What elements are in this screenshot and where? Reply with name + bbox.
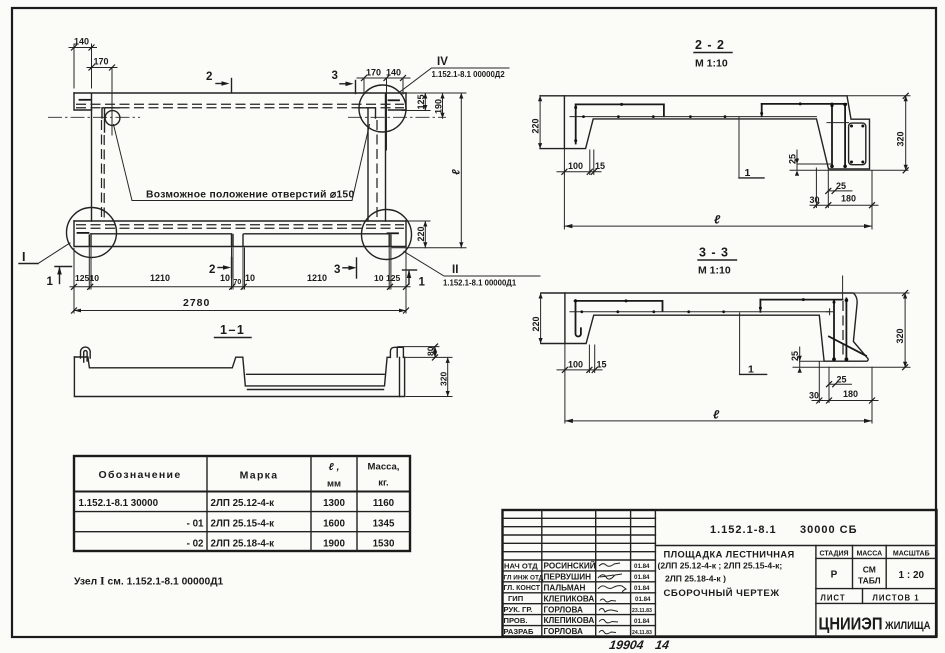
- svg-text:ГЛ ИНЖ ОТД: ГЛ ИНЖ ОТД: [504, 574, 544, 581]
- svg-text:РАЗРАБ: РАЗРАБ: [504, 627, 535, 636]
- svg-text:190: 190: [434, 99, 444, 114]
- svg-text:170: 170: [366, 68, 381, 78]
- svg-text:- 02: - 02: [187, 539, 204, 550]
- svg-text:2: 2: [206, 71, 212, 83]
- svg-text:320: 320: [896, 131, 906, 146]
- svg-text:180: 180: [841, 194, 856, 204]
- svg-text:мм: мм: [327, 479, 341, 490]
- svg-text:2 - 2: 2 - 2: [695, 38, 725, 52]
- svg-text:СМ: СМ: [863, 565, 876, 575]
- svg-text:М 1:10: М 1:10: [698, 265, 731, 277]
- svg-text:2ЛП 25.18-4-к: 2ЛП 25.18-4-к: [211, 539, 275, 550]
- svg-text:1.152.1-8.1 30000: 1.152.1-8.1 30000: [79, 498, 159, 509]
- svg-text:15: 15: [595, 161, 605, 171]
- svg-text:1.152.1-8.1 00000Д2: 1.152.1-8.1 00000Д2: [432, 70, 506, 79]
- svg-text:ℓ ,: ℓ ,: [329, 462, 340, 473]
- svg-text:НАЧ ОТД: НАЧ ОТД: [504, 561, 538, 570]
- svg-text:ℓ: ℓ: [451, 169, 463, 175]
- svg-text:1210: 1210: [307, 273, 327, 283]
- svg-text:2ЛП 25.12-4-к: 2ЛП 25.12-4-к: [211, 498, 275, 509]
- svg-text:100: 100: [568, 161, 583, 171]
- svg-text:180: 180: [843, 389, 858, 399]
- svg-text:70: 70: [234, 279, 242, 286]
- svg-text:1160: 1160: [373, 498, 395, 509]
- svg-text:1–1: 1–1: [220, 323, 245, 337]
- svg-text:ЛИСТ: ЛИСТ: [820, 593, 845, 602]
- svg-text:КЛЕПИКОВА: КЛЕПИКОВА: [544, 594, 595, 603]
- svg-text:10: 10: [220, 273, 230, 283]
- svg-text:3 - 3: 3 - 3: [699, 246, 729, 260]
- svg-text:10: 10: [374, 273, 384, 283]
- svg-text:КЛЕПИКОВА: КЛЕПИКОВА: [544, 616, 595, 625]
- svg-text:140: 140: [74, 37, 89, 47]
- svg-text:1345: 1345: [373, 519, 395, 530]
- svg-text:2: 2: [209, 264, 215, 276]
- svg-text:Узел I см. 1.152.1-8.1 00000: Узел I см. 1.152.1-8.1 00000Д1: [74, 574, 224, 588]
- svg-text:1.152.1-8.1: 1.152.1-8.1: [710, 524, 777, 536]
- svg-text:СБОРОЧНЫЙ ЧЕРТЕЖ: СБОРОЧНЫЙ ЧЕРТЕЖ: [664, 587, 780, 599]
- svg-text:1: 1: [748, 364, 754, 376]
- svg-text:220: 220: [416, 226, 426, 241]
- svg-text:125: 125: [416, 94, 426, 109]
- svg-text:30000 СБ: 30000 СБ: [800, 524, 858, 536]
- svg-text:3: 3: [334, 264, 340, 276]
- svg-text:II: II: [452, 264, 458, 276]
- svg-text:01.84: 01.84: [634, 574, 650, 581]
- svg-text:23.11.83: 23.11.83: [632, 608, 652, 614]
- svg-text:2ЛП 25.18-4-к ): 2ЛП 25.18-4-к ): [665, 574, 726, 584]
- svg-text:3: 3: [332, 70, 338, 82]
- svg-text:80: 80: [426, 346, 436, 356]
- svg-text:1210: 1210: [150, 273, 170, 283]
- svg-text:Обозначение: Обозначение: [99, 469, 182, 481]
- svg-text:2780: 2780: [183, 297, 210, 309]
- svg-text:РОСИНСКИЙ: РОСИНСКИЙ: [544, 560, 596, 571]
- svg-text:14: 14: [654, 638, 670, 652]
- svg-text:ПАЛЬМАН: ПАЛЬМАН: [544, 583, 586, 592]
- svg-text:19904: 19904: [608, 638, 644, 652]
- svg-text:170: 170: [94, 57, 109, 67]
- svg-text:ГИП: ГИП: [508, 594, 523, 603]
- svg-text:25: 25: [790, 351, 800, 361]
- svg-text:1.152.1-8.1 00000Д1: 1.152.1-8.1 00000Д1: [443, 279, 517, 288]
- svg-text:125: 125: [75, 273, 90, 283]
- svg-text:01.84: 01.84: [634, 585, 650, 592]
- svg-text:ЛИСТОВ 1: ЛИСТОВ 1: [872, 593, 919, 602]
- svg-text:ПЕРВУШИН: ПЕРВУШИН: [544, 573, 592, 582]
- svg-text:ГОРЛОВА: ГОРЛОВА: [544, 605, 583, 614]
- svg-text:М 1:10: М 1:10: [695, 58, 728, 70]
- svg-text:ЦНИИЭП: ЦНИИЭП: [819, 614, 883, 634]
- svg-text:01.84: 01.84: [634, 563, 650, 570]
- svg-text:МАСШТАБ: МАСШТАБ: [893, 551, 930, 558]
- svg-text:125: 125: [386, 273, 401, 283]
- svg-text:10: 10: [245, 273, 255, 283]
- svg-text:1530: 1530: [373, 539, 395, 550]
- svg-text:IV: IV: [437, 56, 448, 68]
- svg-text:320: 320: [439, 372, 449, 386]
- svg-text:220: 220: [531, 118, 541, 133]
- svg-text:140: 140: [386, 68, 401, 78]
- svg-text:1: 1: [745, 167, 751, 179]
- svg-text:1300: 1300: [323, 498, 345, 509]
- svg-text:25: 25: [837, 375, 847, 385]
- svg-text:I: I: [22, 250, 25, 264]
- svg-text:220: 220: [531, 316, 541, 331]
- svg-text:2ЛП 25.15-4-к: 2ЛП 25.15-4-к: [211, 519, 275, 530]
- svg-text:15: 15: [597, 360, 607, 370]
- svg-text:30: 30: [809, 391, 819, 401]
- svg-text:01.84: 01.84: [635, 596, 651, 603]
- svg-text:ℓ: ℓ: [713, 408, 720, 422]
- svg-text:Возможное положение отверстий: Возможное положение отверстий ⌀150: [146, 190, 354, 201]
- svg-text:1: 1: [419, 277, 426, 289]
- svg-text:24.11.83: 24.11.83: [632, 630, 652, 636]
- svg-text:ГЛ. КОНСТ: ГЛ. КОНСТ: [504, 585, 541, 592]
- svg-text:(2ЛП 25.12-4-к ; 2ЛП 25.15-4-к: (2ЛП 25.12-4-к ; 2ЛП 25.15-4-к;: [658, 561, 783, 571]
- svg-text:- 01: - 01: [187, 519, 204, 530]
- svg-text:1900: 1900: [323, 539, 345, 550]
- svg-text:320: 320: [895, 328, 905, 343]
- svg-text:ПРОВ.: ПРОВ.: [504, 616, 528, 625]
- svg-text:01.84: 01.84: [634, 618, 650, 625]
- svg-text:30: 30: [810, 195, 820, 205]
- svg-text:ℓ: ℓ: [714, 213, 721, 227]
- svg-text:ПЛОЩАДКА ЛЕСТНИЧНАЯ: ПЛОЩАДКА ЛЕСТНИЧНАЯ: [664, 550, 795, 560]
- svg-text:1: 1: [47, 276, 54, 288]
- svg-text:1 : 20: 1 : 20: [899, 570, 925, 581]
- svg-text:Марка: Марка: [240, 470, 279, 482]
- svg-text:кг.: кг.: [378, 478, 388, 489]
- svg-text:Масса,: Масса,: [368, 462, 400, 473]
- svg-text:Р: Р: [831, 570, 838, 581]
- svg-text:100: 100: [568, 360, 583, 370]
- svg-text:ЖИЛИЩА: ЖИЛИЩА: [884, 620, 930, 632]
- svg-text:25: 25: [836, 181, 846, 191]
- svg-text:25: 25: [788, 154, 798, 164]
- svg-text:ТАБЛ: ТАБЛ: [858, 576, 881, 586]
- svg-text:МАССА: МАССА: [856, 551, 882, 558]
- svg-text:РУК. ГР.: РУК. ГР.: [504, 605, 533, 614]
- svg-text:СТАДИЯ: СТАДИЯ: [819, 551, 848, 558]
- svg-text:ГОРЛОВА: ГОРЛОВА: [544, 627, 583, 636]
- svg-text:1600: 1600: [323, 519, 345, 530]
- svg-text:10: 10: [90, 273, 100, 283]
